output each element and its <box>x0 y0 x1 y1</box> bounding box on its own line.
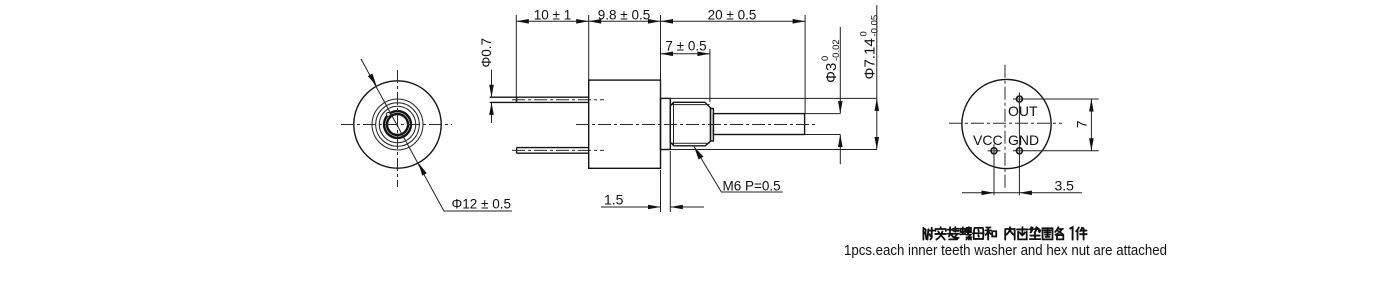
extension line pin end <box>515 15 517 102</box>
extension line body left <box>588 15 590 80</box>
horizontal centerline <box>949 122 1062 124</box>
dimension D7.14 <box>876 5 878 150</box>
nut left chamfer inner line <box>673 102 675 146</box>
extension line body right / collar front <box>660 15 662 98</box>
pin column line through VCC <box>993 144 995 195</box>
dimension 7+-0.5 <box>661 53 710 55</box>
label D7.14 <box>859 15 881 80</box>
shaft knurl outer circle <box>384 111 411 138</box>
svg-text:3.5: 3.5 <box>1055 178 1075 194</box>
vertical centerline <box>1004 65 1006 188</box>
extension lines D3 <box>805 114 841 135</box>
dimension 9.8+-0.5 <box>589 20 661 22</box>
collar rectangle D7.14 <box>661 98 671 149</box>
horizontal centerline <box>341 124 452 126</box>
small detail circle <box>386 112 390 116</box>
rear circle <box>962 79 1051 168</box>
leader arrow bottom <box>418 163 426 176</box>
pin GND <box>1016 148 1022 154</box>
pin OUT <box>1016 96 1022 102</box>
pin column line through OUT/GND <box>1018 93 1020 196</box>
chinese note line <box>923 227 1086 239</box>
nut M6 outline <box>670 102 710 146</box>
svg-text:10 ± 1: 10 ± 1 <box>534 8 571 23</box>
svg-text:VCC: VCC <box>973 132 1003 148</box>
svg-text:20 ± 0.5: 20 ± 0.5 <box>708 8 757 23</box>
svg-text:-0.02: -0.02 <box>831 39 842 61</box>
pin VCC <box>991 148 997 154</box>
svg-text:7 ± 0.5: 7 ± 0.5 <box>665 39 706 54</box>
extension line nut right <box>709 49 711 102</box>
top pin outline <box>490 97 589 102</box>
label D3 <box>820 39 842 83</box>
extension line shaft end <box>804 15 806 114</box>
thread circle M6 <box>376 103 420 147</box>
dimension D3 <box>839 27 841 164</box>
collar circle D7.14 <box>372 99 423 150</box>
bottom pin outline <box>517 148 589 154</box>
svg-text:Φ12 ± 0.5: Φ12 ± 0.5 <box>452 197 511 212</box>
svg-text:OUT: OUT <box>1008 103 1038 119</box>
svg-text:GND: GND <box>1008 132 1039 148</box>
leader line D12 <box>361 59 512 211</box>
svg-text:0: 0 <box>859 31 870 36</box>
leader M6 P=0.5 <box>694 147 783 193</box>
body rectangle <box>589 80 661 168</box>
extension line OUT row <box>1013 98 1099 100</box>
svg-text:M6 P=0.5: M6 P=0.5 <box>723 179 781 194</box>
shaft inner circle <box>387 114 408 135</box>
washer step <box>711 109 714 142</box>
svg-text:7: 7 <box>1075 120 1090 128</box>
dimension D0.7 <box>491 70 493 124</box>
dimension 20+-0.5 <box>661 20 806 22</box>
main centerline <box>576 124 817 126</box>
nut thread line bottom <box>672 142 710 144</box>
VCC pin horizontal tick <box>988 150 1001 152</box>
leader arrow top <box>368 74 377 87</box>
svg-text:Φ3: Φ3 <box>823 63 840 83</box>
svg-text:-0.05: -0.05 <box>869 15 880 37</box>
svg-text:1pcs.each inner teeth washer a: 1pcs.each inner teeth washer and hex nut… <box>844 243 1167 259</box>
bottom pin centerline <box>512 149 604 151</box>
nut thread line top <box>672 104 710 106</box>
thread minor circle <box>379 106 415 142</box>
outer circle body D12 <box>354 81 441 168</box>
extension line GND row <box>1013 150 1099 152</box>
svg-text:Φ7.14: Φ7.14 <box>862 38 879 79</box>
dimension 10+-1 <box>516 20 588 22</box>
shaft rectangle D3 <box>713 114 804 135</box>
top pin centerline <box>512 99 604 101</box>
svg-text:Φ0.7: Φ0.7 <box>479 38 494 68</box>
extension lines D7.14 <box>670 98 877 149</box>
svg-text:1.5: 1.5 <box>604 192 624 208</box>
dimension 1.5 <box>661 151 671 212</box>
dimension 3.5 <box>962 192 1082 194</box>
svg-text:9.8 ± 0.5: 9.8 ± 0.5 <box>598 8 650 23</box>
dimension 7 <box>1090 99 1092 151</box>
svg-text:0: 0 <box>820 56 831 61</box>
vertical centerline <box>397 70 399 187</box>
